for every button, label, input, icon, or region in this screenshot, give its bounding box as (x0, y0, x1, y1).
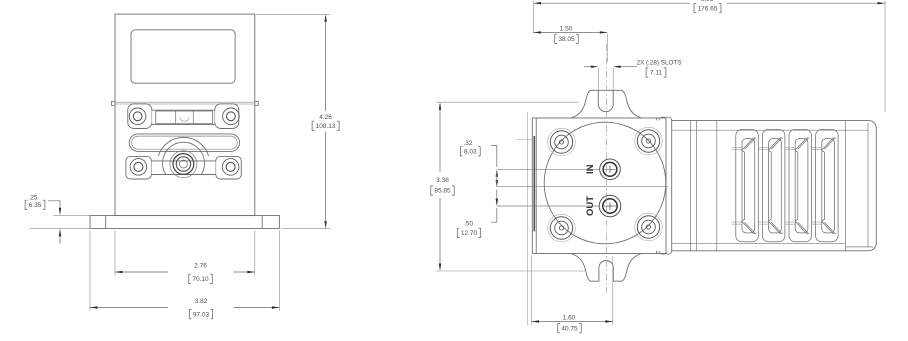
svg-text:3.82: 3.82 (195, 298, 208, 305)
block face plate line (535, 118, 537, 254)
D-sub connector row outline (128, 104, 239, 129)
D-sub connector face (156, 111, 213, 124)
dim 1.60 (531, 256, 533, 326)
svg-text:70.10: 70.10 (192, 276, 209, 283)
valve ring outer (173, 154, 194, 175)
vent slot 2 (762, 130, 785, 242)
bolt row tick (516, 139, 532, 141)
bolt top-left (548, 128, 576, 156)
svg-text:.32: .32 (463, 140, 472, 147)
svg-text:3.38: 3.38 (436, 177, 449, 184)
base flange right (255, 216, 280, 229)
bolt top-right (635, 127, 663, 155)
valve center mark (179, 160, 187, 168)
bottom joint ear (657, 251, 672, 254)
dim .25 flange thickness (54, 215, 91, 217)
vertical centerline (605, 44, 607, 293)
OUT port (599, 195, 621, 217)
dim 2X .28 slots (584, 66, 596, 68)
bottom row screw left (130, 159, 147, 176)
svg-text:6.35: 6.35 (29, 202, 42, 209)
top tab slot (598, 90, 613, 111)
svg-text:2.76: 2.76 (194, 263, 207, 270)
bolt bottom-left (548, 214, 576, 242)
front view body outline (115, 14, 255, 216)
base flange left (90, 216, 115, 229)
block face plate thick segment (533, 136, 535, 231)
svg-text:40.75: 40.75 (561, 325, 578, 332)
svg-text:1.60: 1.60 (563, 315, 576, 322)
vent slot 1 (736, 130, 759, 242)
svg-text:.25: .25 (28, 195, 37, 202)
dim .50 (496, 190, 498, 204)
svg-text:97.03: 97.03 (193, 311, 210, 318)
dim .32 (491, 146, 497, 167)
bottom mounting tab (571, 254, 642, 282)
bottom connector row outline (126, 156, 241, 179)
top joint ear (657, 117, 672, 120)
valve ring inner (176, 157, 190, 171)
middle stadium slot (129, 134, 239, 152)
svg-text:85.85: 85.85 (434, 188, 451, 195)
D-sub jack screw right (223, 108, 240, 125)
top tab slot extension lines (598, 68, 613, 90)
main block outline (532, 118, 666, 254)
dim 4.26 overall height (257, 13, 330, 15)
long extension line left (526, 112, 528, 325)
base bottom edge (90, 228, 279, 230)
svg-text:2X (.28) SLOTS: 2X (.28) SLOTS (637, 60, 682, 67)
housing outline (672, 120, 877, 250)
valve knob third arc (170, 151, 197, 178)
bolt bottom-right (635, 213, 663, 241)
svg-text:8.03: 8.03 (464, 149, 477, 156)
svg-text:4.26: 4.26 (319, 114, 332, 121)
svg-text:1.50: 1.50 (560, 26, 573, 33)
svg-text:38.05: 38.05 (558, 36, 575, 43)
vent slot 3 (789, 130, 812, 242)
valve knob outer arc (158, 137, 208, 156)
horizontal centerline (497, 185, 668, 187)
D-sub jack screw left (129, 108, 146, 125)
housing internal horizontals (672, 130, 873, 247)
body bottom edge (115, 215, 255, 217)
dim 3.82 base width (89, 231, 91, 312)
valve knob second arc (163, 142, 205, 174)
main circular body (544, 122, 666, 244)
svg-text:108.13: 108.13 (316, 123, 336, 130)
bottom tab slot arc (599, 261, 613, 268)
right side tab (255, 101, 258, 105)
display window (131, 30, 235, 83)
svg-text:.50: .50 (464, 221, 473, 228)
OUT port level line (497, 205, 617, 207)
svg-text:12.70: 12.70 (461, 230, 478, 237)
dim 1.50 (534, 31, 608, 33)
svg-text:7.11: 7.11 (650, 70, 663, 77)
dim 6.96 overall length (534, 2, 886, 4)
svg-text:6.96: 6.96 (701, 0, 714, 3)
IN port (600, 159, 621, 180)
dim 2.76 body width (114, 231, 116, 276)
left side tab (112, 101, 115, 105)
top mounting tab (571, 90, 642, 118)
vent slot 4 (816, 130, 839, 242)
svg-text:176.65: 176.65 (698, 5, 718, 12)
housing internal verticals (691, 120, 869, 250)
IN port level line (497, 168, 617, 170)
dim 3.38 overall height (436, 101, 579, 103)
bottom row screw right (222, 159, 239, 176)
body parting line (115, 102, 255, 104)
